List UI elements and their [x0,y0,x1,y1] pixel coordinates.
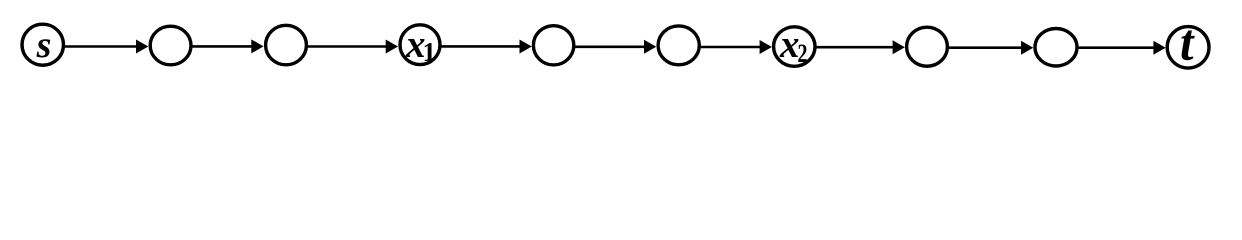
node 6 (empty circle) [658,26,699,65]
node t (circle) [1167,27,1209,69]
node 9 (empty circle) [1035,29,1077,67]
label x1 [405,23,436,67]
node x1 (circle) [400,25,440,65]
node s (circle) [22,24,63,65]
wire x1->n5 [440,39,532,53]
wire n3->x1 [306,40,398,54]
node 8 (empty circle) [907,27,948,66]
node x2 (circle) [774,27,815,67]
node 5 (empty circle) [533,26,573,65]
svg-text:t: t [1180,14,1195,71]
node 2 (empty circle) [150,26,191,65]
wire x2->n8 [815,40,905,54]
wire n8->n9 [947,41,1033,55]
label x2 [779,23,808,68]
svg-text:x: x [779,23,800,66]
wire n5->n6 [573,40,656,54]
markov chain diagram: s -> o -> o -> x1 -> o -> o -> x2 -> o -> o -> t [0,0,1242,92]
svg-text:s: s [36,24,52,66]
wire n6->x2 [699,40,772,54]
wire n2->n3 [191,39,264,53]
wire s->n2 [63,40,148,54]
node 3 (empty circle) [266,25,307,65]
wire n9->t [1076,41,1165,55]
svg-text:2: 2 [798,39,808,68]
svg-text:1: 1 [423,37,437,67]
